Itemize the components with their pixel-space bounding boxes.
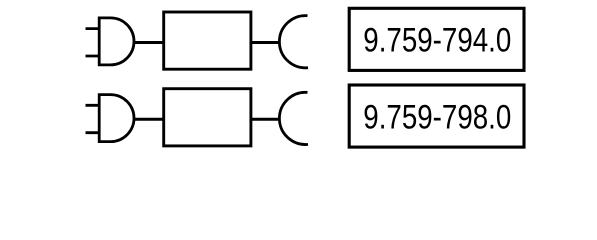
component box B1 (row 1) (164, 12, 251, 69)
wire W1 (plug to box, row 1) (133, 41, 164, 44)
wire W3 (plug to box, row 2) (133, 118, 164, 121)
plug P1 (male connector, row 1) (86, 18, 135, 65)
socket J1 (open arc, row 1) (279, 16, 308, 68)
plug P2 (male connector, row 2) (86, 95, 135, 142)
wire W4 (box to socket, row 2) (251, 118, 280, 121)
socket J2 (open arc, row 2) (279, 92, 308, 144)
svg-text:9.759-794.0: 9.759-794.0 (363, 21, 511, 59)
svg-text:9.759-798.0: 9.759-798.0 (363, 98, 511, 136)
part-number frame F2 (row 2) (349, 85, 524, 147)
part-number frame F1 (row 1) (349, 8, 524, 70)
component box B2 (row 2) (164, 89, 251, 146)
wire W2 (box to socket, row 1) (251, 41, 280, 44)
